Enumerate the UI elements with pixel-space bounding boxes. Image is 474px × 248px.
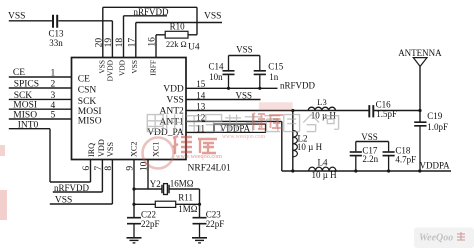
capacitor C16 bbox=[369, 105, 373, 117]
wire top VSS rail bbox=[103, 6, 197, 8]
svg-text:XC1: XC1 bbox=[152, 142, 161, 157]
wire vertical VSS to R10 right lead bbox=[196, 7, 198, 35]
wire SCK to pin 3 bbox=[9, 98, 72, 100]
svg-text:nRFVDD: nRFVDD bbox=[280, 81, 316, 91]
wire pin 19 column (DVDD) bbox=[111, 21, 113, 58]
svg-text:SCK: SCK bbox=[78, 97, 97, 107]
svg-text:17: 17 bbox=[127, 38, 137, 48]
svg-text:16: 16 bbox=[148, 37, 158, 47]
svg-text:C14: C14 bbox=[209, 62, 225, 72]
resistor R11 bbox=[155, 201, 175, 207]
svg-text:VSS: VSS bbox=[236, 44, 253, 54]
watermark red weiku characters bbox=[173, 136, 217, 154]
svg-text:WeeQoo: WeeQoo bbox=[419, 233, 453, 244]
watermark light red band upper bbox=[259, 102, 293, 110]
svg-text:20: 20 bbox=[94, 38, 104, 48]
svg-text:1.0pF: 1.0pF bbox=[427, 122, 448, 132]
svg-text:MOSI: MOSI bbox=[78, 107, 102, 117]
wire MISO to pin 5 bbox=[9, 118, 72, 120]
watermark red characters center bbox=[252, 113, 283, 130]
svg-text:1n: 1n bbox=[269, 72, 279, 82]
svg-text:VDD_PA: VDD_PA bbox=[147, 128, 184, 138]
svg-text:VSS: VSS bbox=[166, 96, 183, 106]
watermark red seal circle bbox=[143, 138, 174, 169]
wire C16 to antenna column bbox=[374, 110, 420, 112]
svg-text:4: 4 bbox=[50, 101, 55, 111]
svg-text:19: 19 bbox=[104, 38, 114, 48]
svg-text:VDD: VDD bbox=[97, 139, 106, 157]
wire pin 16 column (IRFF) bbox=[155, 35, 157, 58]
wire antenna column bbox=[419, 66, 421, 121]
svg-text:C23: C23 bbox=[206, 209, 222, 219]
svg-text:VDDPA: VDDPA bbox=[220, 124, 251, 134]
wire nRFVDD label stub bbox=[124, 15, 168, 17]
wire pin 11 VDD_PA bbox=[186, 131, 214, 133]
capacitor C17 bbox=[350, 142, 362, 172]
junction dot ANT2 to L2 bbox=[291, 109, 294, 112]
svg-text:R10: R10 bbox=[170, 22, 186, 32]
junction dot C19 bottom bbox=[418, 169, 421, 172]
svg-text:DVDD: DVDD bbox=[106, 59, 115, 81]
svg-text:Y2: Y2 bbox=[150, 179, 161, 189]
crystal Y2 bbox=[164, 184, 168, 195]
svg-text:1: 1 bbox=[50, 68, 55, 78]
svg-text:C19: C19 bbox=[427, 111, 443, 121]
svg-text:CE: CE bbox=[78, 75, 90, 85]
wire pin 14 VSS row bbox=[186, 99, 261, 101]
wire C13 right plate to pin 19 column bbox=[58, 20, 112, 22]
svg-text:NRF24L01: NRF24L01 bbox=[188, 163, 232, 173]
watermark WeeQoo badge bbox=[414, 228, 474, 248]
IC U4 NRF24L01 body bbox=[72, 58, 187, 160]
svg-text:www.weeqoo.com: www.weeqoo.com bbox=[176, 153, 222, 160]
wire ANT1 down to bottom row bbox=[281, 121, 283, 171]
wire VSS to C13 left plate bbox=[9, 20, 52, 22]
svg-text:U4: U4 bbox=[188, 42, 200, 52]
svg-text:4.7pF: 4.7pF bbox=[395, 155, 416, 165]
svg-text:2: 2 bbox=[50, 80, 55, 90]
junction dot C14 bottom bbox=[227, 87, 230, 90]
ground below C23 bbox=[192, 237, 207, 239]
wire pin 13 ANT2 row bbox=[186, 110, 369, 112]
capacitor C14 bbox=[223, 56, 235, 89]
wire pin 15 VDD row bbox=[186, 87, 278, 89]
capacitor C15 bbox=[254, 56, 266, 89]
svg-text:1MΩ: 1MΩ bbox=[178, 204, 198, 214]
wire R11 row bbox=[134, 203, 200, 205]
junction dot XC2 R11 row bbox=[132, 203, 135, 206]
inductor L2 bbox=[293, 131, 298, 157]
svg-text:ANTENNA: ANTENNA bbox=[398, 48, 442, 58]
wire VSS to pin 8 bbox=[50, 160, 113, 205]
watermark left edge red smudge bbox=[0, 145, 5, 156]
svg-text:22pF: 22pF bbox=[206, 219, 225, 229]
wire R10 right lead bbox=[188, 34, 197, 36]
watermark gray company text bbox=[147, 115, 338, 132]
svg-text:VSS: VSS bbox=[236, 91, 253, 101]
inductor L4 bbox=[309, 167, 336, 171]
svg-text:C22: C22 bbox=[141, 209, 156, 219]
wire VSS rail above C14 C15 bbox=[229, 55, 260, 57]
wire pin 10 XC1 column bbox=[147, 160, 149, 190]
svg-text:VDDPA: VDDPA bbox=[420, 160, 451, 170]
wire bottom VDDPA row bbox=[282, 170, 451, 172]
wire L2 top lead bbox=[292, 111, 294, 172]
junction dot R11 right bbox=[198, 203, 201, 206]
svg-text:6: 6 bbox=[82, 166, 92, 171]
svg-text:10 µ H: 10 µ H bbox=[297, 142, 323, 152]
capacitor C23 bbox=[193, 218, 207, 224]
wire CE to pin 1 bbox=[9, 76, 72, 78]
svg-text:www.weeqoo.com: www.weeqoo.com bbox=[222, 134, 266, 140]
svg-text:3: 3 bbox=[50, 91, 55, 101]
wire pin 16 to R10 left lead bbox=[156, 34, 165, 36]
svg-text:22pF: 22pF bbox=[141, 219, 160, 229]
svg-text:MISO: MISO bbox=[78, 117, 102, 127]
svg-text:C16: C16 bbox=[376, 99, 392, 109]
svg-text:VSS: VSS bbox=[106, 142, 115, 157]
wire pin 9 XC2 column bbox=[133, 160, 135, 218]
antenna symbol bbox=[413, 58, 427, 67]
junction dot C17 bottom bbox=[354, 169, 357, 172]
svg-text:VDD: VDD bbox=[163, 85, 184, 95]
svg-text:10n: 10n bbox=[209, 72, 223, 82]
wire pin 20 column (VSS) bbox=[102, 7, 104, 57]
capacitor C19 bbox=[414, 122, 426, 171]
svg-text:18: 18 bbox=[115, 38, 125, 48]
capacitor C13 bbox=[53, 15, 57, 28]
wire MOSI to pin 4 bbox=[9, 108, 72, 110]
svg-text:5: 5 bbox=[50, 111, 55, 121]
svg-text:VSS: VSS bbox=[204, 12, 221, 22]
wire crystal right column bbox=[199, 189, 201, 217]
junction dot antenna C16 bbox=[418, 109, 421, 112]
svg-text:R11: R11 bbox=[178, 192, 193, 202]
junction dot XC2 crystal row bbox=[132, 187, 135, 190]
svg-text:VSS: VSS bbox=[361, 132, 378, 142]
svg-text:22k Ω: 22k Ω bbox=[166, 40, 187, 49]
wire pin 18 column (VDD) bbox=[123, 16, 125, 58]
svg-text:2.2n: 2.2n bbox=[362, 154, 378, 164]
svg-text:C13: C13 bbox=[49, 28, 65, 38]
capacitor C18 bbox=[383, 142, 395, 172]
junction dot L2 bottom bbox=[291, 169, 294, 172]
svg-text:VSS: VSS bbox=[8, 12, 25, 22]
wire pin 12 ANT1 row bbox=[186, 120, 282, 122]
wire VSS stub pin 17 bbox=[136, 22, 222, 24]
node VDDPA boxed label bbox=[214, 124, 266, 132]
svg-text:CSN: CSN bbox=[78, 86, 97, 96]
inductor L3 bbox=[308, 107, 335, 110]
svg-text:33n: 33n bbox=[49, 38, 63, 48]
junction dot C18 bottom bbox=[387, 169, 390, 172]
svg-text:VDD: VDD bbox=[118, 59, 127, 76]
svg-text:IRFF: IRFF bbox=[149, 60, 158, 76]
resistor R10 bbox=[165, 31, 188, 38]
svg-text:10 µ H: 10 µ H bbox=[312, 170, 338, 180]
wire nRFVDD to pin 7 bbox=[53, 160, 103, 193]
wire SPICS to pin 2 bbox=[9, 87, 72, 89]
svg-text:L4: L4 bbox=[318, 157, 328, 167]
wire VSS rail above C17 C18 bbox=[356, 141, 389, 143]
svg-text:C15: C15 bbox=[268, 62, 284, 72]
ground below C22 bbox=[127, 237, 142, 239]
wire pin 17 column (VSS) bbox=[135, 23, 137, 58]
svg-text:XC2: XC2 bbox=[129, 142, 138, 157]
junction dot C15 bottom bbox=[258, 87, 261, 90]
svg-text:L3: L3 bbox=[317, 97, 326, 107]
capacitor C22 bbox=[127, 218, 141, 224]
wire INT0 to pin 6 bbox=[9, 129, 91, 182]
svg-text:16MΩ: 16MΩ bbox=[170, 179, 194, 189]
wire crystal row bbox=[134, 188, 200, 190]
svg-text:IRQ: IRQ bbox=[87, 143, 96, 157]
svg-text:VSS: VSS bbox=[130, 60, 139, 74]
